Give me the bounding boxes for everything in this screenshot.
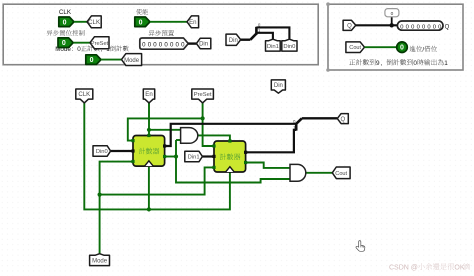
svg-text:0: 0 <box>391 11 394 17</box>
tunnel Din0 <box>282 39 297 51</box>
wire AND1 output to counter2 <box>198 135 230 141</box>
svg-text:Din: Din <box>274 83 283 89</box>
wire Din0 black <box>111 150 133 152</box>
svg-text:Cout: Cout <box>335 171 347 177</box>
corner handle top <box>326 2 330 6</box>
svg-text:En: En <box>189 19 196 26</box>
wire counter2 carry to AND2 <box>246 163 290 168</box>
input pin CLK <box>59 17 74 27</box>
wire AND2 output <box>306 172 333 174</box>
wire CLK net <box>84 103 230 209</box>
svg-text:0: 0 <box>63 19 67 26</box>
svg-text:CLK: CLK <box>88 19 100 26</box>
svg-text:0: 0 <box>90 57 94 64</box>
svg-text:Q: Q <box>340 117 345 123</box>
svg-text:0: 0 <box>438 24 441 30</box>
wire Q bit1 from counter2 <box>246 130 297 152</box>
wire to AND gates lower inputs <box>176 139 181 141</box>
tunnel Mode <box>122 54 142 66</box>
svg-text:0: 0 <box>62 40 66 47</box>
svg-text:CSDN @: CSDN @ <box>389 264 418 271</box>
svg-text:0: 0 <box>411 24 414 30</box>
svg-text:0: 0 <box>427 24 430 30</box>
svg-text:9: 9 <box>376 60 380 67</box>
svg-text:PreSet: PreSet <box>194 92 212 98</box>
wire bit1 <box>256 33 273 39</box>
svg-text:Din: Din <box>229 38 238 44</box>
tunnel Din1 <box>185 151 203 161</box>
caption 正计数到9，倒计数到0时输出为1 <box>349 59 355 65</box>
svg-text:0: 0 <box>77 46 81 53</box>
frame of output display panel (top-right box) <box>328 4 463 70</box>
tunnel CLK top <box>76 89 93 103</box>
label 异步预置 <box>149 30 155 36</box>
tunnel En <box>187 16 199 28</box>
svg-text:Q: Q <box>445 25 450 31</box>
wire Q bus <box>356 24 398 26</box>
input pin Mode <box>86 55 101 65</box>
wire <box>241 39 251 41</box>
junction PreSet <box>201 116 205 120</box>
svg-text:Mode: Mode <box>92 259 108 265</box>
junction Mode <box>98 193 102 197</box>
svg-text:0: 0 <box>422 24 425 30</box>
splitter Din 2-bit <box>250 34 256 40</box>
svg-text:0: 0 <box>400 45 404 52</box>
counter U2 计数器 <box>212 139 247 172</box>
junction En <box>147 128 151 132</box>
wire Mode net <box>100 162 133 254</box>
svg-text:Din: Din <box>199 42 208 48</box>
tunnel Q source <box>343 20 356 30</box>
wire counter1 clock <box>148 166 150 209</box>
wire <box>74 21 87 23</box>
svg-text:Cout: Cout <box>349 45 361 51</box>
wire En net <box>148 103 150 136</box>
wire <box>150 21 187 23</box>
tunnel Mode bottom <box>90 254 110 266</box>
svg-text:OK: OK <box>454 264 464 271</box>
junction CLK <box>147 207 151 211</box>
and-gate G1 <box>181 128 198 144</box>
wire PreSet branch to counter1 <box>128 118 203 140</box>
label 使能 <box>136 9 142 15</box>
splitter Q 2-bit <box>295 123 298 130</box>
tunnel Din1 <box>266 39 281 51</box>
svg-text:0: 0 <box>176 41 180 48</box>
label 异步置位控制 <box>46 30 52 36</box>
tunnel Din0 <box>93 146 111 156</box>
svg-text:0: 0 <box>433 24 436 30</box>
svg-text:0: 0 <box>170 41 174 48</box>
wire <box>101 59 122 61</box>
svg-text:Din1: Din1 <box>267 44 279 50</box>
svg-text:CLK: CLK <box>59 9 72 16</box>
svg-text:Mode: Mode <box>124 58 140 64</box>
svg-text::: : <box>72 46 74 53</box>
wire bit0 <box>256 27 289 39</box>
wire Q bus <box>302 117 337 119</box>
svg-text:En: En <box>145 91 152 98</box>
svg-text:,: , <box>380 60 382 67</box>
svg-text:0: 0 <box>139 19 143 26</box>
label 进位/借位 <box>409 46 415 52</box>
frame of input control panel (top-left box) <box>3 4 318 64</box>
mouse cursor <box>356 241 365 252</box>
junction carry <box>174 154 178 158</box>
wire <box>365 46 397 48</box>
wire counter1 carry out <box>165 156 176 158</box>
probe 1-bit <box>385 9 399 17</box>
svg-text:Q: Q <box>347 24 352 30</box>
input pin Din 8-bit 00000000 <box>140 38 189 49</box>
wire probe stub <box>391 17 393 26</box>
tunnel CLK <box>87 16 101 28</box>
svg-text:Din0: Din0 <box>96 149 108 155</box>
tunnel Din <box>196 38 210 48</box>
svg-text:Din1: Din1 <box>188 155 200 161</box>
tunnel En top <box>143 89 154 103</box>
wire <box>74 42 91 44</box>
output pin 进位/借位 <box>397 42 408 53</box>
probe Q 8-bit <box>397 21 443 30</box>
tunnel Cout sink <box>346 42 365 53</box>
tunnel Din floating <box>271 80 285 93</box>
and-gate G2 <box>290 164 306 181</box>
junction <box>390 23 394 27</box>
wire PreSet net <box>203 103 214 146</box>
input pin PreSet <box>58 38 73 48</box>
wire Din1 black <box>202 155 214 157</box>
counter U1 计数器 <box>131 134 166 166</box>
svg-text:0: 0 <box>406 24 409 30</box>
wire Mode branch to counter2 <box>100 167 214 194</box>
svg-text:1: 1 <box>444 60 448 67</box>
wire Q bit0 from counter1 <box>165 124 297 146</box>
tunnel Din source <box>226 34 241 45</box>
svg-text:Din0: Din0 <box>283 44 296 50</box>
input pin En <box>135 17 150 27</box>
tunnel Q right <box>337 114 348 124</box>
svg-text:/: / <box>422 46 424 53</box>
svg-text:0: 0 <box>413 60 417 67</box>
tunnel PreSet top <box>192 89 214 103</box>
svg-text:0: 0 <box>417 24 420 30</box>
wire En to AND1 <box>149 129 181 131</box>
wire <box>188 42 196 44</box>
svg-text:0: 0 <box>153 41 157 48</box>
svg-text:0: 0 <box>148 41 152 48</box>
svg-text:CLK: CLK <box>78 91 90 98</box>
corner handle bottom <box>326 68 330 72</box>
svg-text:PreSet: PreSet <box>91 41 109 47</box>
tunnel Cout right <box>332 167 350 179</box>
svg-text:0: 0 <box>400 24 403 30</box>
tunnel PreSet <box>90 37 109 49</box>
